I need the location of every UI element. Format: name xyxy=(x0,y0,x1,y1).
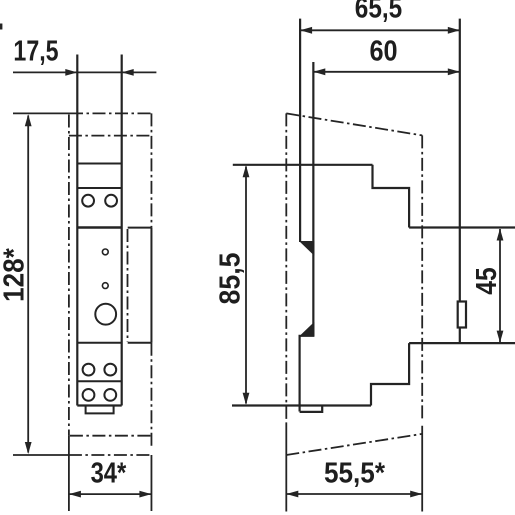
arrow 45 bottom (points down) xyxy=(497,331,504,343)
dimension 65,5 line xyxy=(300,29,460,31)
arrow 128* bottom (points down) xyxy=(25,442,32,454)
side front face lower xyxy=(299,335,301,412)
arrow 60 right (points right) xyxy=(448,68,460,75)
side box bottom xyxy=(128,342,152,344)
arrow 55,5* right (points right) xyxy=(410,491,422,498)
arrow 65,5 left (points left) xyxy=(300,27,312,34)
rail top dash-dot xyxy=(69,135,152,137)
svg-text:128*: 128* xyxy=(0,248,30,302)
lower wedge xyxy=(299,322,315,337)
side box top xyxy=(128,227,152,229)
side bottom tab xyxy=(300,406,323,412)
module divider 3 xyxy=(77,380,121,382)
envelope right dash-dot lower xyxy=(150,343,152,447)
side bottom edge xyxy=(232,404,371,406)
terminal circle top-right xyxy=(105,195,117,207)
dimension 17,5 line xyxy=(13,71,156,73)
swing diagonal top dash-dot xyxy=(286,113,422,135)
dimension 45 label xyxy=(470,267,502,294)
swing left vertical dash-dot xyxy=(285,113,287,424)
dimension 128* line xyxy=(27,116,29,453)
dimension 60 line xyxy=(313,71,460,73)
arrow 34* right (points right) xyxy=(139,491,151,498)
envelope left dash-dot xyxy=(68,115,70,436)
arrow 128* top (points up) xyxy=(25,114,32,126)
DIN clip detail xyxy=(458,302,466,328)
side inner face xyxy=(312,62,314,336)
arrow 85,5 bottom (points down) xyxy=(243,393,250,405)
small indicator circle 1 xyxy=(102,249,108,255)
terminal circle mid-left xyxy=(83,364,95,376)
side upper right shelf xyxy=(409,226,515,228)
svg-text:60: 60 xyxy=(369,34,397,67)
envelope left extension solid xyxy=(68,436,70,511)
arrow 45 top (points up) xyxy=(497,229,504,241)
dimension 128* label xyxy=(0,248,30,302)
side box right xyxy=(150,228,152,343)
arrow 34* left (points left) xyxy=(69,491,81,498)
dimension 34* label xyxy=(91,456,127,489)
svg-text:85,5: 85,5 xyxy=(214,253,246,305)
svg-text:34*: 34* xyxy=(91,456,127,489)
envelope right extension solid xyxy=(150,455,152,511)
module top edge xyxy=(77,163,121,165)
svg-text:65,5: 65,5 xyxy=(355,0,402,24)
dimension 45 line xyxy=(499,229,501,342)
terminal circle bot-right xyxy=(104,389,116,401)
envelope top extension (128*) xyxy=(13,112,70,114)
module bottom tab xyxy=(86,406,114,414)
swing left extension solid xyxy=(285,424,287,512)
module left edge xyxy=(76,55,78,406)
svg-text:45: 45 xyxy=(470,267,502,294)
envelope top dash-dot xyxy=(70,112,152,114)
module right edge xyxy=(121,55,123,406)
svg-text:55,5*: 55,5* xyxy=(324,456,385,489)
dimension 85,5 line xyxy=(245,167,247,404)
side top edge xyxy=(233,164,373,166)
arrow 60 left (points left) xyxy=(313,68,325,75)
module bottom edge xyxy=(77,404,121,406)
envelope bottom dash-dot xyxy=(69,454,151,456)
side back edge xyxy=(459,19,461,344)
swing diagonal bottom dash-dot xyxy=(286,434,422,455)
edge tick artifact xyxy=(0,24,2,30)
side lower right shelf xyxy=(409,342,515,344)
dimension 34* line xyxy=(69,493,151,495)
upper wedge xyxy=(299,241,314,256)
terminal circle top-left xyxy=(82,195,94,207)
side bottom steps xyxy=(371,343,409,405)
arrow 17,5 left (points right) xyxy=(65,69,77,76)
envelope right dash-dot upper xyxy=(150,113,152,227)
swing right extension solid xyxy=(421,426,423,512)
arrow 85,5 top (points up) xyxy=(243,165,250,177)
dimension 85,5 label xyxy=(214,253,246,305)
swing right vertical dash-dot xyxy=(421,135,423,421)
dimension 55,5* label xyxy=(324,456,385,489)
terminal circle bot-left xyxy=(83,389,95,401)
dimension 17,5 label xyxy=(13,34,58,67)
arrow 65,5 right (points right) xyxy=(448,27,460,34)
dimension 55,5* line xyxy=(286,493,422,495)
side top steps xyxy=(373,165,410,228)
svg-text:17,5: 17,5 xyxy=(13,34,58,67)
rail bottom dash-dot xyxy=(70,435,151,437)
dimension 60 label xyxy=(369,34,397,67)
envelope bottom extension (128*) xyxy=(13,454,69,456)
arrow 17,5 right (points left) xyxy=(122,69,134,76)
module thick divider xyxy=(77,226,121,229)
side box left dash-dot xyxy=(127,229,129,342)
dimension 65,5 label xyxy=(355,0,402,24)
arrow 55,5* left (points left) xyxy=(286,491,298,498)
module divider 1 xyxy=(77,187,121,189)
large button circle xyxy=(95,304,116,325)
terminal circle mid-right xyxy=(104,364,116,376)
side front face upper xyxy=(299,19,301,242)
small indicator circle 2 xyxy=(102,283,108,289)
module divider 2 xyxy=(77,342,121,344)
